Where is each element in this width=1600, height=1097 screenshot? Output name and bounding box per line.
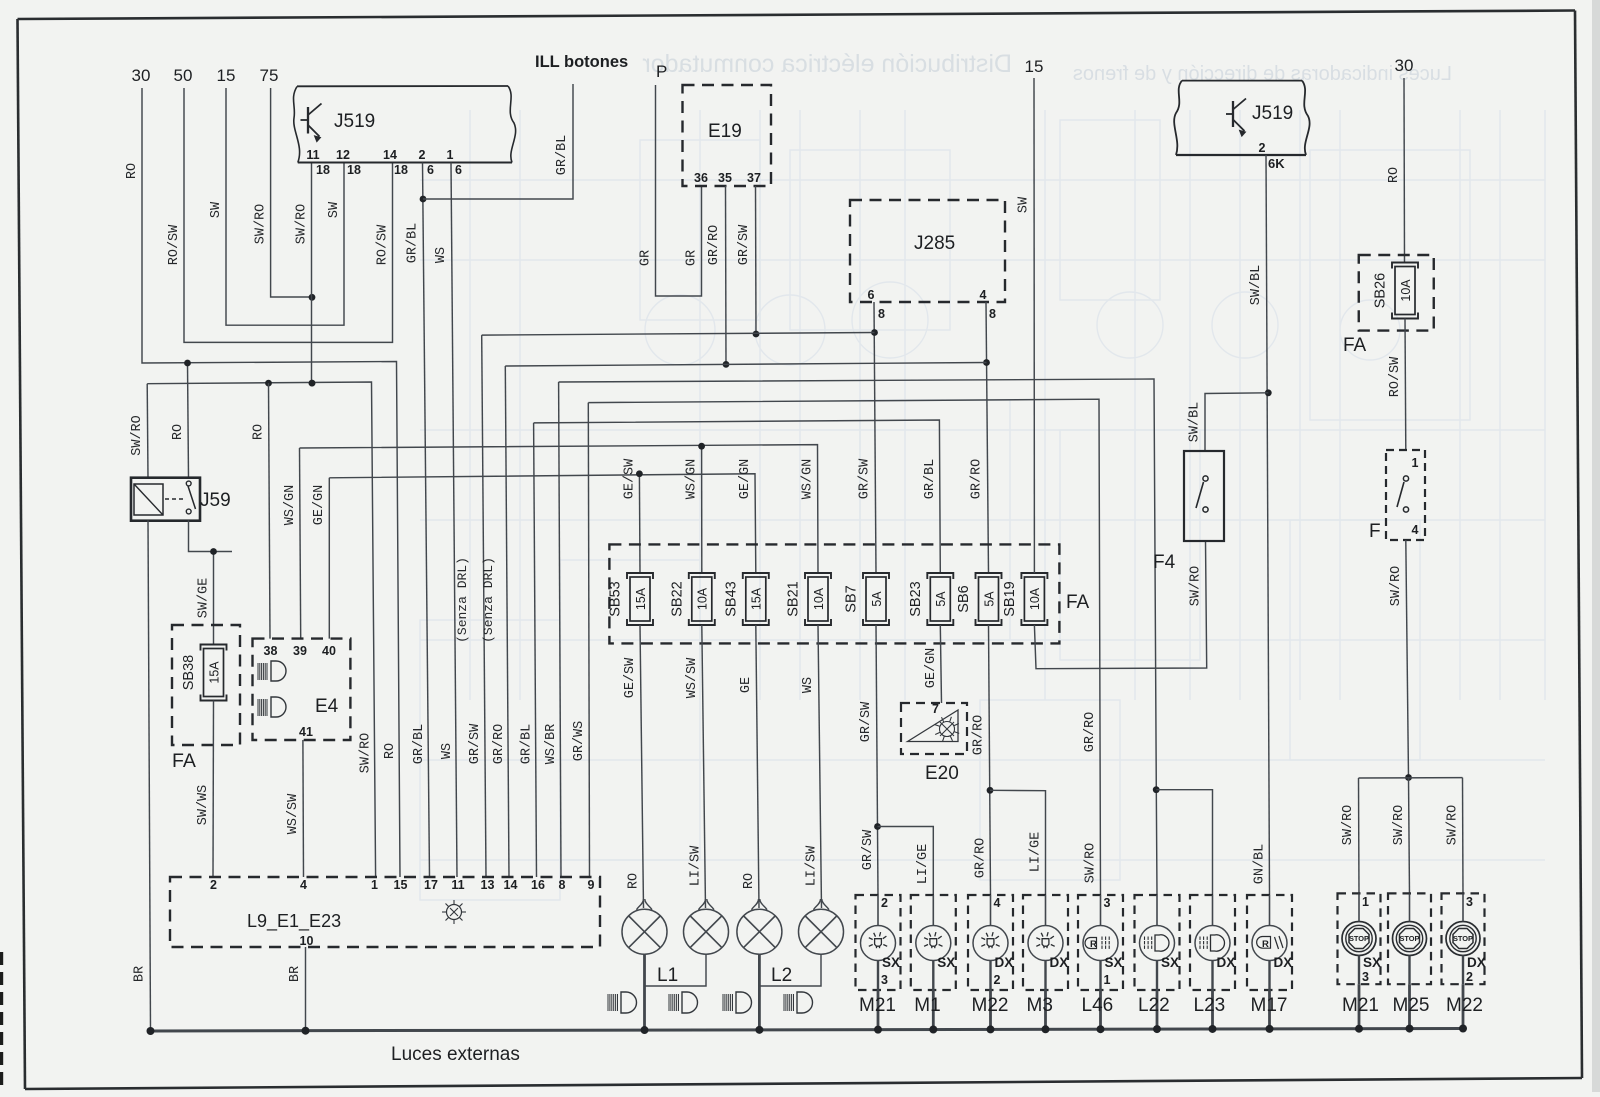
svg-text:11: 11 xyxy=(306,148,319,162)
node terminal 30 (left) xyxy=(132,66,151,85)
svg-text:SW/RO: SW/RO xyxy=(295,204,310,245)
svg-text:SB23: SB23 xyxy=(908,581,924,616)
svg-text:RO: RO xyxy=(125,163,140,179)
svg-text:37: 37 xyxy=(747,171,761,185)
wire ground bus BR xyxy=(147,1025,1468,1035)
wire SW/GE from J59 switch to fuse SB38 xyxy=(189,520,233,644)
wire GR/BL to ILL botones xyxy=(423,84,573,199)
wire net GR/BL : L9 pin 16 to fuse SB23 xyxy=(520,420,941,877)
wire GR/BL from J519 pin 2 down to L9 pin 17 xyxy=(406,163,430,878)
svg-text:SW/RO: SW/RO xyxy=(1341,805,1356,846)
lamp M21 (stop light) xyxy=(1338,893,1382,1031)
lamp M3 (parking light right) xyxy=(1023,895,1068,1031)
svg-text:1: 1 xyxy=(1362,895,1369,909)
switch F4 xyxy=(1153,451,1224,573)
svg-text:6K: 6K xyxy=(1268,156,1285,171)
svg-text:SB26: SB26 xyxy=(1373,273,1389,308)
wire SW/BL,GN/BL from J519 right pin 2 to lamp M17 xyxy=(1249,155,1272,895)
svg-text:SX: SX xyxy=(1161,955,1179,970)
wire GE/SW,RO from SB53 to lamp L1 left xyxy=(623,625,644,908)
svg-text:GR/SW: GR/SW xyxy=(468,723,483,764)
svg-text:10A: 10A xyxy=(1399,279,1413,302)
svg-text:4: 4 xyxy=(994,896,1001,910)
lamp M17 (reversing light) xyxy=(1247,895,1292,1031)
wire BR from J59 coil to ground bus xyxy=(133,520,151,1031)
svg-text:40: 40 xyxy=(322,644,336,658)
svg-text:E4: E4 xyxy=(315,696,339,717)
svg-text:2: 2 xyxy=(994,973,1001,987)
svg-text:GR/RO: GR/RO xyxy=(492,724,507,765)
svg-text:SW/WS: SW/WS xyxy=(196,785,211,826)
lamp L46 (rear fog left) xyxy=(1078,895,1123,1031)
svg-text:2: 2 xyxy=(419,148,426,162)
svg-text:5A: 5A xyxy=(934,591,948,607)
svg-text:SB38: SB38 xyxy=(181,655,197,690)
svg-text:SB53: SB53 xyxy=(608,581,624,616)
svg-text:RO/SW: RO/SW xyxy=(376,224,391,265)
fuse SB43 15A xyxy=(723,573,769,625)
svg-text:SW/RO: SW/RO xyxy=(1446,805,1461,846)
svg-text:30: 30 xyxy=(132,66,151,85)
svg-text:8: 8 xyxy=(878,307,885,321)
svg-text:GR/WS: GR/WS xyxy=(572,721,587,762)
svg-text:SW/BL: SW/BL xyxy=(1249,265,1264,306)
svg-text:M22: M22 xyxy=(1446,995,1483,1016)
wire RO from terminal 30 to fuse SB26 xyxy=(1387,78,1405,262)
svg-text:M21: M21 xyxy=(1342,995,1379,1016)
svg-text:10A: 10A xyxy=(1028,587,1042,610)
svg-text:11: 11 xyxy=(451,878,464,892)
svg-text:SB21: SB21 xyxy=(786,581,802,616)
svg-text:SW: SW xyxy=(209,201,224,218)
svg-text:WS/SW: WS/SW xyxy=(286,793,301,834)
svg-text:Distribución eléctrica conmuta: Distribución eléctrica conmutador xyxy=(642,50,1012,78)
wire net WS/BR: L9 pin 8 to lamps L22 L23 xyxy=(544,379,1213,895)
svg-text:F4: F4 xyxy=(1153,552,1176,573)
svg-text:GE/GN: GE/GN xyxy=(924,648,939,689)
svg-text:1: 1 xyxy=(1104,973,1111,987)
button illumination regulator E19 xyxy=(683,85,772,186)
wire WS,LI/SW from SB21 to lamp L2 right xyxy=(801,625,822,908)
svg-text:SW: SW xyxy=(327,201,342,218)
svg-text:14: 14 xyxy=(504,878,518,892)
svg-text:2: 2 xyxy=(1259,141,1266,155)
svg-text:SX: SX xyxy=(882,955,900,970)
svg-text:5A: 5A xyxy=(870,591,884,607)
wire GE/GN from SB23 to switch E20 xyxy=(924,625,942,703)
svg-text:39: 39 xyxy=(293,644,307,658)
control module J519 (right) xyxy=(1174,81,1309,171)
svg-text:M3: M3 xyxy=(1027,995,1053,1016)
svg-text:14: 14 xyxy=(383,148,397,162)
wire SW/BL branch to switch F4 xyxy=(1188,393,1269,451)
svg-text:15: 15 xyxy=(217,66,236,85)
wire BR from L9 pin 10 to ground bus xyxy=(288,947,306,1031)
svg-text:L1: L1 xyxy=(657,965,678,986)
svg-text:SX: SX xyxy=(1105,955,1123,970)
svg-text:SW/GE: SW/GE xyxy=(197,578,212,619)
svg-text:LI/SW: LI/SW xyxy=(689,845,704,886)
svg-text:15A: 15A xyxy=(207,661,221,684)
svg-text:3: 3 xyxy=(1104,896,1111,910)
wire WS/SW from E4 pin 41 to L9 pin 4 xyxy=(286,740,304,877)
svg-text:35: 35 xyxy=(718,171,732,185)
svg-text:4: 4 xyxy=(1412,523,1419,537)
svg-text:SW/RO: SW/RO xyxy=(130,415,145,456)
svg-text:SB22: SB22 xyxy=(669,581,685,616)
svg-text:SW/RO: SW/RO xyxy=(1389,566,1404,607)
wire net GR/RO : L9 pin14 / E19-35 / J285-4 xyxy=(492,363,987,878)
svg-text:SW: SW xyxy=(1017,196,1032,213)
node terminal 15 (left) xyxy=(217,66,236,85)
node terminal 30 (right) xyxy=(1395,56,1414,75)
fuse box FA row xyxy=(609,544,1089,643)
svg-text:BR: BR xyxy=(288,966,303,982)
svg-text:L46: L46 xyxy=(1082,995,1114,1016)
svg-text:FA: FA xyxy=(1343,335,1367,356)
svg-text:15: 15 xyxy=(1025,57,1044,76)
svg-text:RO: RO xyxy=(383,743,398,759)
svg-text:GR/RO: GR/RO xyxy=(970,459,985,500)
wire net GE/GN : E4 pin 40 / SB53 / SB43 xyxy=(312,458,756,639)
svg-text:6: 6 xyxy=(455,163,462,177)
svg-text:GR/RO: GR/RO xyxy=(707,225,722,266)
svg-text:7: 7 xyxy=(932,702,939,716)
svg-text:DX: DX xyxy=(1050,955,1069,970)
svg-text:M21: M21 xyxy=(859,995,896,1016)
svg-text:GR/BL: GR/BL xyxy=(520,724,535,765)
svg-text:GR: GR xyxy=(639,250,654,266)
wire GR/SW from E19 pin 37 xyxy=(737,186,759,337)
svg-text:Luces externas: Luces externas xyxy=(391,1044,520,1065)
svg-text:15: 15 xyxy=(394,878,408,892)
wire SW/RO from terminal 75 xyxy=(254,88,316,301)
svg-text:J285: J285 xyxy=(914,233,955,254)
svg-text:ILL botones: ILL botones xyxy=(535,53,628,71)
node ILL botones xyxy=(535,53,628,71)
wire GR/RO from SB6 to lamp M22 xyxy=(972,625,994,895)
svg-text:3: 3 xyxy=(1466,895,1473,909)
svg-text:SW/RO: SW/RO xyxy=(1392,805,1407,846)
svg-text:M17: M17 xyxy=(1251,995,1288,1016)
svg-text:DX: DX xyxy=(995,955,1014,970)
label Luces externas xyxy=(391,1044,520,1065)
svg-text:2: 2 xyxy=(210,878,217,892)
svg-text:3: 3 xyxy=(881,973,888,987)
svg-text:30: 30 xyxy=(1395,56,1414,75)
svg-text:9: 9 xyxy=(588,878,595,892)
svg-text:GR/SW: GR/SW xyxy=(861,829,876,870)
svg-text:SB7: SB7 xyxy=(844,585,860,612)
svg-text:DX: DX xyxy=(1467,955,1486,970)
lamp M21 (tail light left) xyxy=(856,895,901,1031)
switch E20 xyxy=(901,702,967,784)
svg-text:SW/BL: SW/BL xyxy=(1188,402,1203,443)
svg-text:10A: 10A xyxy=(696,587,710,610)
svg-text:6: 6 xyxy=(427,163,434,177)
svg-text:8: 8 xyxy=(989,307,996,321)
svg-text:L9_E1_E23: L9_E1_E23 xyxy=(247,911,341,932)
svg-text:L23: L23 xyxy=(1194,995,1226,1016)
wire GR/SW from J285 pin 6 to fuse SB7 xyxy=(858,302,878,573)
svg-text:BR: BR xyxy=(133,966,148,982)
svg-text:5A: 5A xyxy=(982,591,996,607)
svg-text:WS/GN: WS/GN xyxy=(801,459,816,500)
svg-text:SB19: SB19 xyxy=(1002,581,1018,616)
lamp M25 (stop light) xyxy=(1388,893,1431,1031)
svg-text:LI/GE: LI/GE xyxy=(1029,832,1044,873)
svg-text:12: 12 xyxy=(336,148,350,162)
svg-text:L2: L2 xyxy=(771,965,792,986)
svg-text:L22: L22 xyxy=(1138,995,1170,1016)
wire SW/RO from J519 pin 11 xyxy=(295,163,316,387)
wire GE,RO from SB43 to lamp L2 left xyxy=(739,625,759,908)
fuse SB7 5A xyxy=(844,573,890,625)
svg-text:J519: J519 xyxy=(334,111,375,132)
svg-text:GR/BL: GR/BL xyxy=(406,223,421,264)
relay J59 xyxy=(131,478,231,521)
fuse SB23 5A xyxy=(908,573,954,625)
lamp M1 (parking light left) xyxy=(911,895,956,1031)
svg-text:10A: 10A xyxy=(812,587,826,610)
svg-text:1: 1 xyxy=(447,148,454,162)
svg-text:FA: FA xyxy=(172,750,196,772)
svg-text:18: 18 xyxy=(316,163,330,177)
svg-text:P: P xyxy=(656,62,667,81)
svg-text:17: 17 xyxy=(424,878,438,892)
svg-text:(Senza DRL): (Senza DRL) xyxy=(481,557,496,643)
svg-text:WS/SW: WS/SW xyxy=(685,657,700,698)
svg-text:SB6: SB6 xyxy=(956,585,972,612)
fuse SB53 15A xyxy=(608,573,654,625)
fuse SB26 10A in holder FA xyxy=(1343,255,1434,356)
svg-text:E19: E19 xyxy=(708,121,742,142)
svg-text:SW/RO: SW/RO xyxy=(254,204,269,245)
wire GR/SW from SB7 to lamp M21 xyxy=(859,625,881,895)
svg-text:4: 4 xyxy=(300,878,307,892)
svg-text:R: R xyxy=(1262,939,1269,950)
svg-text:GR/RO: GR/RO xyxy=(972,715,987,756)
wire GR/RO from E19 pin 35 xyxy=(707,186,729,368)
svg-text:DX: DX xyxy=(1274,955,1293,970)
node terminal 50 xyxy=(174,66,193,85)
svg-text:18: 18 xyxy=(347,163,361,177)
wire net GR/WS : L9 pin 9 to lamp L46 xyxy=(572,399,1101,895)
svg-text:WS/GN: WS/GN xyxy=(283,485,298,526)
svg-text:GR/SW: GR/SW xyxy=(858,458,873,499)
svg-text:2: 2 xyxy=(881,896,888,910)
wire RO branch to E4 pin 38 xyxy=(252,383,271,638)
svg-text:4: 4 xyxy=(980,288,987,302)
lamp L22 (side marker left) xyxy=(1135,895,1180,1031)
svg-text:16: 16 xyxy=(531,878,545,892)
control module J285 xyxy=(850,200,1005,321)
wire RO from terminal 30 xyxy=(125,88,400,877)
svg-text:RO: RO xyxy=(171,424,186,440)
svg-text:DX: DX xyxy=(1217,955,1236,970)
wire GR/RO from J285 pin 4 to fuse SB6 xyxy=(970,302,990,573)
svg-text:GR/BL: GR/BL xyxy=(412,724,427,765)
svg-text:15A: 15A xyxy=(634,587,648,610)
svg-text:RO: RO xyxy=(252,424,267,440)
svg-text:RO/SW: RO/SW xyxy=(167,224,182,265)
wire net GR/SW : L9 pin13 / E19-37 / J285-6 xyxy=(468,333,875,878)
lamp M22 (stop light) xyxy=(1442,893,1486,1031)
wire WS from J519 pin 1 down to L9 pin 11 xyxy=(434,163,457,878)
svg-text:RO: RO xyxy=(627,873,642,889)
switch F xyxy=(1369,450,1425,542)
control module J519 (left) xyxy=(293,86,515,177)
svg-text:8: 8 xyxy=(559,878,566,892)
svg-text:M25: M25 xyxy=(1393,995,1430,1016)
svg-text:FA: FA xyxy=(1066,592,1090,613)
svg-text:GE/GN: GE/GN xyxy=(312,485,327,526)
svg-text:E20: E20 xyxy=(925,763,959,784)
wire LI/GE branch to lamp M1 xyxy=(878,827,934,896)
svg-text:M1: M1 xyxy=(914,995,940,1016)
svg-text:SX: SX xyxy=(1363,955,1381,970)
svg-text:SB43: SB43 xyxy=(723,581,739,616)
svg-text:18: 18 xyxy=(394,163,408,177)
svg-text:STOP: STOP xyxy=(1349,934,1369,943)
svg-text:2: 2 xyxy=(1466,970,1473,984)
wire SW/WS from SB38 to L9 pin 2 xyxy=(196,701,214,878)
wire SW from terminal 15 to J519 pin 12 xyxy=(209,88,344,325)
svg-text:GN/BL: GN/BL xyxy=(1253,844,1268,885)
svg-text:M22: M22 xyxy=(972,995,1009,1016)
svg-text:J59: J59 xyxy=(200,490,231,511)
svg-text:GR/RO: GR/RO xyxy=(974,838,989,879)
wire net SW/RO: J59 coil / E4-38 / J519-11 / L9 pin 1 xyxy=(130,380,376,877)
svg-text:GE/GN: GE/GN xyxy=(738,459,753,500)
lamp L1 xyxy=(608,899,729,1031)
svg-text:3: 3 xyxy=(1362,970,1369,984)
svg-text:WS: WS xyxy=(434,247,449,263)
svg-text:10: 10 xyxy=(300,934,314,948)
svg-text:WS: WS xyxy=(801,677,816,693)
fuse SB38 15A in holder FA xyxy=(172,625,240,772)
svg-text:GR/RO: GR/RO xyxy=(1083,712,1098,753)
svg-text:41: 41 xyxy=(299,725,313,739)
svg-text:GR: GR xyxy=(685,250,700,266)
lamp L23 (side marker right) xyxy=(1190,895,1235,1031)
svg-text:F: F xyxy=(1369,521,1381,542)
wire SW/RO from SB19 to switch F4 xyxy=(1034,541,1206,669)
node terminal 15 (right) xyxy=(1025,57,1044,76)
svg-text:GR/BL: GR/BL xyxy=(923,459,938,500)
wire SW/RO from switch F to stop lamps xyxy=(1389,540,1412,781)
svg-text:LI/SW: LI/SW xyxy=(805,845,820,886)
svg-text:SX: SX xyxy=(937,955,955,970)
fuse SB19 10A xyxy=(1002,573,1048,625)
wire RO branch to J59 switch xyxy=(171,360,191,478)
svg-text:GE: GE xyxy=(739,677,754,693)
svg-text:15A: 15A xyxy=(750,587,764,610)
svg-text:SW/RO: SW/RO xyxy=(1189,566,1204,607)
wire net WS/GN : E4 pin 39 / SB22 / SB21 xyxy=(283,443,818,639)
svg-text:SW/RO: SW/RO xyxy=(1084,843,1099,884)
wire GR from P to E19 pin 36 xyxy=(639,85,702,296)
svg-text:LI/GE: LI/GE xyxy=(916,844,931,885)
fuse SB22 10A xyxy=(669,573,715,625)
lamp L2 xyxy=(723,899,844,1031)
svg-text:RO/SW: RO/SW xyxy=(1388,356,1403,397)
svg-text:38: 38 xyxy=(264,644,278,658)
node terminal 75 xyxy=(260,66,279,85)
svg-text:STOP: STOP xyxy=(1453,934,1473,943)
svg-text:13: 13 xyxy=(481,878,495,892)
wire RO/SW from terminal 50 to J519 pin 14 xyxy=(167,88,393,342)
svg-text:1: 1 xyxy=(1412,456,1419,470)
fuse SB6 5A xyxy=(956,573,1002,625)
light switch E4 xyxy=(253,639,351,740)
lamp M22 (tail light right) xyxy=(968,895,1013,1031)
svg-text:STOP: STOP xyxy=(1400,934,1420,943)
label RO at L9 pin 15 xyxy=(383,743,398,759)
fuse SB21 10A xyxy=(786,573,832,625)
svg-text:(Senza DRL): (Senza DRL) xyxy=(455,557,470,643)
svg-text:WS/BR: WS/BR xyxy=(544,724,559,765)
svg-text:RO: RO xyxy=(1387,167,1402,183)
svg-text:50: 50 xyxy=(174,66,193,85)
label (Senza DRL) annotations xyxy=(455,557,496,643)
wire SW/RO distribution to stop lamps M21 M25 M22 xyxy=(1341,778,1463,896)
wire LI/GE branch to lamp M3 xyxy=(990,790,1046,895)
node P xyxy=(656,62,667,81)
svg-text:GR/SW: GR/SW xyxy=(859,701,874,742)
wire RO/SW from SB26 to switch F xyxy=(1388,319,1406,451)
wire WS/SW,LI/SW from SB22 to lamp L1 right xyxy=(685,625,706,908)
svg-text:R: R xyxy=(1090,939,1097,950)
svg-text:36: 36 xyxy=(694,171,708,185)
svg-text:75: 75 xyxy=(260,66,279,85)
svg-text:J519: J519 xyxy=(1252,103,1293,124)
svg-text:WS/GN: WS/GN xyxy=(685,459,700,500)
svg-text:GR/SW: GR/SW xyxy=(737,224,752,265)
svg-text:GE/SW: GE/SW xyxy=(623,458,638,499)
svg-text:RO: RO xyxy=(742,873,757,889)
svg-text:6: 6 xyxy=(868,288,875,302)
svg-text:GR/BL: GR/BL xyxy=(555,135,570,176)
svg-text:GE/SW: GE/SW xyxy=(623,657,638,698)
svg-text:WS: WS xyxy=(440,743,455,759)
svg-text:1: 1 xyxy=(371,878,378,892)
wire SW from terminal 15 to fuse SB19 xyxy=(1017,78,1035,573)
svg-text:SW/RO: SW/RO xyxy=(359,733,374,774)
light unit L9_E1_E23 xyxy=(170,877,600,948)
